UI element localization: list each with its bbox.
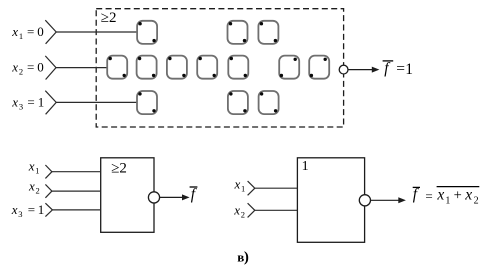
- svg-text:x1+x2: x1+x2: [436, 187, 478, 207]
- svg-text:x2: x2: [233, 202, 245, 219]
- svg-text:≥2: ≥2: [101, 10, 117, 26]
- svg-text:=: =: [396, 61, 405, 78]
- svg-text:x3=1: x3=1: [11, 202, 45, 219]
- svg-text:в): в): [237, 249, 249, 265]
- svg-text:x1=0: x1=0: [11, 24, 44, 41]
- svg-text:x3=1: x3=1: [11, 94, 44, 111]
- svg-text:x1: x1: [28, 159, 40, 176]
- svg-text:=: =: [425, 189, 432, 204]
- svg-text:≥2: ≥2: [111, 160, 127, 176]
- svg-text:f: f: [413, 186, 420, 203]
- svg-text:x2=0: x2=0: [11, 60, 44, 77]
- svg-text:1: 1: [302, 159, 309, 174]
- svg-text:1: 1: [405, 61, 413, 78]
- svg-text:f: f: [384, 60, 391, 77]
- svg-text:f: f: [191, 186, 198, 203]
- svg-text:x1: x1: [234, 176, 246, 193]
- svg-text:x2: x2: [28, 178, 40, 195]
